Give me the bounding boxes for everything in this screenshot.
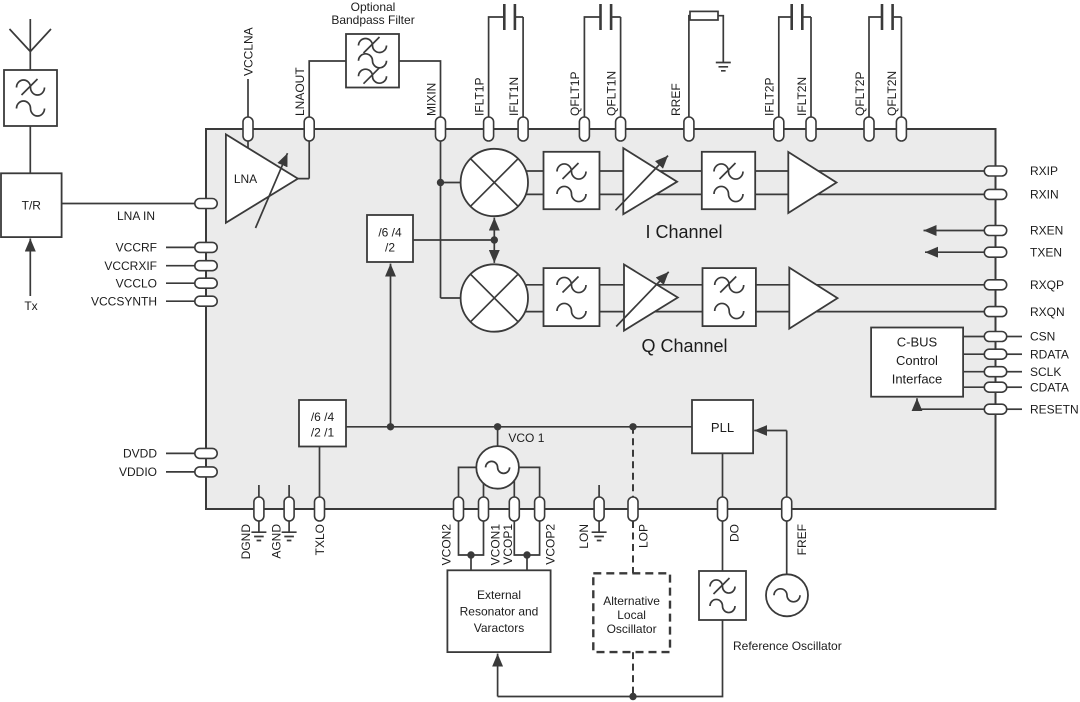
wire VCCRXIF label stub bbox=[166, 265, 195, 267]
capacitor C2 (QFLT1) plates bbox=[601, 4, 612, 30]
svg-text:LNA: LNA bbox=[234, 172, 257, 186]
wire VDDIO label stub bbox=[166, 471, 195, 473]
pin VCCLO bbox=[195, 278, 217, 288]
wire RESETN to C-BUS arrow bbox=[917, 398, 984, 409]
divider U5 (/6 /4 /2 /1) bbox=[299, 400, 346, 447]
svg-text:VCOP2: VCOP2 bbox=[543, 524, 557, 565]
svg-text:Interface: Interface bbox=[892, 372, 943, 387]
svg-text:AGND: AGND bbox=[269, 524, 283, 559]
pin LNAOUT bbox=[304, 117, 314, 141]
wire LNA apex to LNAOUT pin bbox=[298, 141, 309, 179]
pin VCON2 bbox=[454, 497, 464, 521]
svg-text:RXIP: RXIP bbox=[1030, 164, 1058, 178]
wire divider U5 to TXLO pin bbox=[319, 447, 321, 498]
pin VDDIO bbox=[195, 467, 217, 477]
wire LO to divider U4 bbox=[390, 264, 392, 427]
svg-text:Resonator and: Resonator and bbox=[460, 605, 539, 619]
filter FL1 (I channel 1st) bbox=[544, 152, 600, 209]
pin RXQP bbox=[984, 280, 1006, 290]
capacitor C4 (QFLT2) plates bbox=[882, 4, 893, 30]
svg-text:Q Channel: Q Channel bbox=[641, 336, 727, 356]
svg-text:T/R: T/R bbox=[22, 199, 42, 213]
capacitor C1 (IFLT1) plates bbox=[504, 4, 515, 30]
pin VCCLNA bbox=[243, 117, 253, 141]
pin QFLT2P bbox=[864, 117, 874, 141]
svg-text:DGND: DGND bbox=[239, 524, 253, 560]
T/R switch bbox=[1, 173, 62, 237]
svg-text:IFLT2N: IFLT2N bbox=[795, 77, 809, 116]
pin LON bbox=[594, 497, 604, 521]
capacitor C2 (QFLT1) wires bbox=[584, 17, 620, 118]
pin VCCRF bbox=[195, 242, 217, 252]
pin LNA IN bbox=[195, 199, 217, 209]
wire TXEN input arrow bbox=[925, 251, 984, 253]
svg-text:Alternative: Alternative bbox=[603, 594, 660, 608]
svg-text:VDDIO: VDDIO bbox=[119, 465, 157, 479]
pin MIXIN bbox=[436, 117, 446, 141]
optional bandpass filter bbox=[346, 34, 399, 88]
pin IFLT1N bbox=[518, 117, 528, 141]
svg-text:IFLT1N: IFLT1N bbox=[507, 77, 521, 116]
svg-text:RESETN: RESETN bbox=[1030, 402, 1079, 416]
wire RESETN label stub bbox=[1007, 408, 1022, 410]
pin VCOP1 bbox=[509, 497, 519, 521]
wire RDATA label stub bbox=[1007, 353, 1022, 355]
ground (AGND) bbox=[282, 485, 297, 541]
svg-text:CDATA: CDATA bbox=[1030, 380, 1069, 394]
External Resonator and Varactors block bbox=[447, 570, 550, 652]
capacitor C1 (IFLT1) wires bbox=[489, 17, 523, 118]
svg-text:TXLO: TXLO bbox=[313, 524, 327, 555]
wire I channel differential lines bbox=[494, 171, 984, 194]
svg-text:/6 /4: /6 /4 bbox=[378, 226, 402, 240]
node VCO junction bbox=[494, 423, 501, 430]
wire antenna to front-end filter bbox=[29, 52, 31, 71]
svg-text:/2 /1: /2 /1 bbox=[311, 426, 335, 440]
svg-text:DO: DO bbox=[727, 524, 741, 542]
svg-text:/2: /2 bbox=[385, 241, 395, 255]
pin IFLT1P bbox=[484, 117, 494, 141]
node LOP junction on LO line bbox=[629, 423, 636, 430]
resistor R1 body bbox=[690, 11, 718, 20]
pin DVDD bbox=[195, 448, 217, 458]
divider U4 (/6 /4 /2) bbox=[367, 215, 413, 262]
pin QFLT1P bbox=[579, 117, 589, 141]
pin QFLT1N bbox=[616, 117, 626, 141]
svg-text:VCO 1: VCO 1 bbox=[508, 431, 544, 445]
wire filter to T/R switch bbox=[29, 126, 31, 173]
variable gain amp A1 (I) bbox=[623, 148, 677, 214]
svg-text:I Channel: I Channel bbox=[645, 222, 722, 242]
filter FL5 (DO loop filter) bbox=[699, 571, 746, 620]
IC body U1 bbox=[206, 129, 996, 509]
wire FREF vertical bbox=[786, 431, 788, 575]
node VCOP junction bbox=[523, 551, 530, 558]
pin IFLT2P bbox=[774, 117, 784, 141]
svg-text:RXEN: RXEN bbox=[1030, 224, 1063, 238]
pin RXIP bbox=[984, 166, 1006, 176]
node loop junction (alt LO) bbox=[629, 693, 636, 700]
pin RREF bbox=[684, 117, 694, 141]
pin DO bbox=[718, 497, 728, 521]
filter FL4 (Q channel 2nd) bbox=[703, 268, 756, 326]
svg-text:Bandpass Filter: Bandpass Filter bbox=[331, 13, 414, 27]
wire RXEN input arrow bbox=[924, 230, 985, 232]
pin CSN bbox=[984, 332, 1006, 342]
pin CDATA bbox=[984, 382, 1006, 392]
svg-text:Varactors: Varactors bbox=[474, 621, 524, 635]
main LO line bbox=[346, 426, 692, 428]
svg-text:Local: Local bbox=[617, 608, 646, 622]
svg-text:RDATA: RDATA bbox=[1030, 347, 1069, 361]
node VCON junction bbox=[467, 551, 474, 558]
node MIXIN junction bbox=[437, 179, 444, 186]
svg-text:PLL: PLL bbox=[711, 420, 734, 435]
mixer U2 (I) bbox=[461, 149, 528, 216]
pin RXQN bbox=[984, 307, 1006, 317]
wire VCCSYNTH label stub bbox=[166, 300, 195, 302]
wire LOP dashed (alternative LO input) bbox=[632, 427, 634, 697]
filter FL2 (I channel 2nd) bbox=[702, 152, 755, 209]
pin VCON1 bbox=[479, 497, 489, 521]
Alternative Local Oscillator block bbox=[593, 573, 670, 652]
capacitor C4 (QFLT2) wires bbox=[869, 17, 901, 118]
svg-text:IFLT1P: IFLT1P bbox=[472, 78, 486, 116]
svg-text:RXQP: RXQP bbox=[1030, 278, 1064, 292]
output amp A2 (I) bbox=[788, 152, 836, 213]
wires C-BUS to pins bbox=[963, 337, 984, 388]
svg-text:VCON2: VCON2 bbox=[440, 524, 454, 566]
svg-text:VCCRXIF: VCCRXIF bbox=[104, 259, 157, 273]
wire Q channel differential lines bbox=[494, 285, 984, 312]
wire LNAOUT pin up to optional filter bbox=[309, 61, 346, 118]
wire SCLK label stub bbox=[1007, 371, 1022, 373]
svg-text:VCCLO: VCCLO bbox=[116, 276, 157, 290]
oscillator VCO 1 bbox=[476, 446, 519, 489]
pin VCCSYNTH bbox=[195, 296, 217, 306]
svg-text:DVDD: DVDD bbox=[123, 447, 157, 461]
svg-text:LOP: LOP bbox=[636, 524, 650, 548]
pin TXLO bbox=[315, 497, 325, 521]
wire T/R to LNA IN pin bbox=[62, 203, 195, 205]
svg-text:Optional: Optional bbox=[351, 0, 396, 14]
svg-text:VCOP1: VCOP1 bbox=[501, 524, 515, 565]
pin RDATA bbox=[984, 349, 1006, 359]
PLL block bbox=[692, 400, 753, 453]
resistor R1 (RREF) wires bbox=[689, 16, 723, 118]
svg-text:VCCLNA: VCCLNA bbox=[241, 27, 255, 76]
mixer U3 (Q) bbox=[461, 264, 528, 331]
svg-text:Tx: Tx bbox=[24, 299, 37, 313]
svg-text:QFLT1N: QFLT1N bbox=[604, 71, 618, 116]
svg-text:QFLT1P: QFLT1P bbox=[568, 72, 582, 116]
op-amp LNA bbox=[226, 134, 298, 228]
capacitor C3 (IFLT2) wires bbox=[779, 17, 811, 118]
output amp A4 (Q) bbox=[789, 268, 837, 329]
svg-text:Control: Control bbox=[896, 353, 938, 368]
wire DVDD label stub bbox=[166, 452, 195, 454]
pin RESETN bbox=[984, 404, 1006, 414]
svg-text:VCCRF: VCCRF bbox=[116, 241, 157, 255]
svg-text:RREF: RREF bbox=[669, 83, 683, 116]
wire VCOP1/VCOP2 join bbox=[514, 521, 539, 570]
svg-text:Oscillator: Oscillator bbox=[607, 622, 657, 636]
pin RXIN bbox=[984, 189, 1006, 199]
wire CSN label stub bbox=[1007, 336, 1022, 338]
wire VCCLNA external bbox=[247, 79, 249, 118]
wire MIXIN internal bbox=[441, 141, 462, 299]
svg-text:RXQN: RXQN bbox=[1030, 305, 1065, 319]
pin TXEN bbox=[984, 247, 1006, 257]
front-end filter (antenna bandpass) bbox=[4, 70, 57, 126]
wire VCCRF label stub bbox=[166, 246, 195, 248]
wire PLL to DO pin bbox=[722, 453, 724, 497]
antenna bbox=[10, 19, 52, 52]
svg-text:/6 /4: /6 /4 bbox=[311, 410, 335, 424]
pin VCCRXIF bbox=[195, 261, 217, 271]
svg-text:LNA IN: LNA IN bbox=[117, 209, 155, 223]
pin SCLK bbox=[984, 367, 1006, 377]
capacitor C3 (IFLT2) plates bbox=[792, 4, 803, 30]
svg-text:QFLT2P: QFLT2P bbox=[853, 72, 867, 116]
Tx input arrow bbox=[29, 239, 31, 297]
svg-text:C-BUS: C-BUS bbox=[897, 335, 938, 350]
oscillator Reference Oscillator bbox=[766, 574, 808, 616]
svg-text:Reference Oscillator: Reference Oscillator bbox=[733, 639, 842, 653]
svg-text:LON: LON bbox=[577, 524, 591, 549]
ground (RREF) bbox=[716, 63, 731, 71]
svg-text:FREF: FREF bbox=[795, 524, 809, 555]
C-BUS Control Interface block bbox=[871, 328, 963, 397]
pin VCOP2 bbox=[535, 497, 545, 521]
wire VCO stub to LO line bbox=[497, 427, 499, 446]
filter FL3 (Q channel 1st) bbox=[544, 268, 600, 326]
wire DO pin to filter bbox=[722, 521, 724, 571]
pin IFLT2N bbox=[806, 117, 816, 141]
wire VCCLO label stub bbox=[166, 282, 195, 284]
wire divider1 to mixers LO bbox=[413, 239, 494, 241]
wire FREF to PLL arrow bbox=[754, 430, 787, 432]
svg-text:VCCSYNTH: VCCSYNTH bbox=[91, 294, 157, 308]
ground (DGND) bbox=[251, 485, 266, 541]
wires VCO to varactor pins bbox=[459, 467, 540, 497]
pin AGND bbox=[284, 497, 294, 521]
wire VCON2/VCON1 join bbox=[459, 521, 484, 570]
ground (LON) bbox=[592, 485, 607, 541]
svg-text:MIXIN: MIXIN bbox=[424, 83, 438, 116]
svg-text:RXIN: RXIN bbox=[1030, 188, 1059, 202]
node LO junction between mixers bbox=[491, 236, 498, 243]
pin QFLT2N bbox=[896, 117, 906, 141]
wire VCCLNA stub to LNA bbox=[247, 141, 249, 149]
svg-text:SCLK: SCLK bbox=[1030, 365, 1061, 379]
svg-text:CSN: CSN bbox=[1030, 330, 1055, 344]
LO double arrow between mixers bbox=[493, 218, 495, 240]
svg-text:TXEN: TXEN bbox=[1030, 245, 1062, 259]
variable gain amp A3 (Q) bbox=[624, 265, 678, 331]
svg-text:LNAOUT: LNAOUT bbox=[293, 67, 307, 116]
wire optional filter to MIXIN pin bbox=[399, 61, 441, 118]
pin LOP bbox=[628, 497, 638, 521]
svg-text:External: External bbox=[477, 588, 521, 602]
svg-text:IFLT2P: IFLT2P bbox=[763, 78, 777, 116]
wire CDATA label stub bbox=[1007, 386, 1022, 388]
pin DGND bbox=[254, 497, 264, 521]
pin FREF bbox=[782, 497, 792, 521]
node junction divider feed bbox=[387, 423, 394, 430]
wire loop back to resonator bbox=[498, 620, 723, 697]
svg-text:QFLT2N: QFLT2N bbox=[885, 71, 899, 116]
pin RXEN bbox=[984, 226, 1006, 236]
